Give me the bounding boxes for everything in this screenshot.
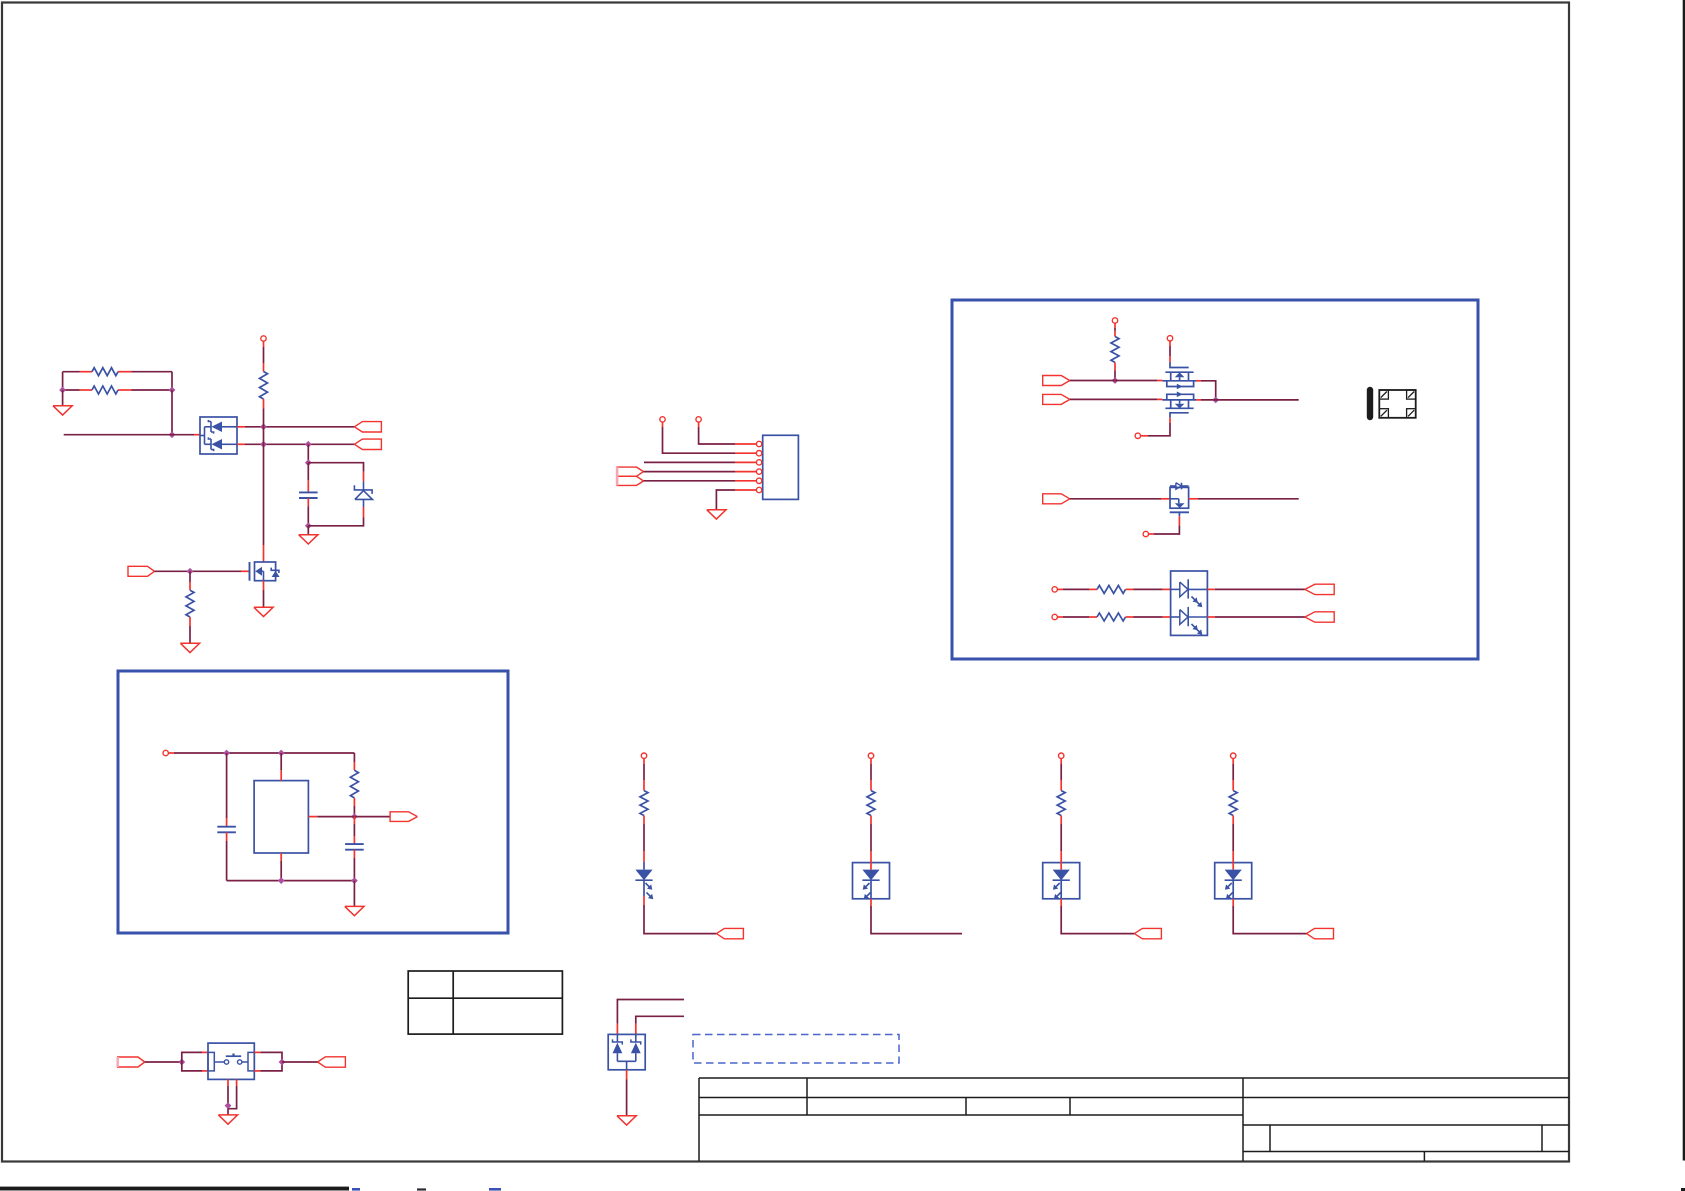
junction left R pair <box>59 387 66 394</box>
wire gate1 <box>155 570 242 572</box>
wire red stub into LED2 <box>870 862 872 870</box>
connector J1 body <box>763 435 799 499</box>
wire red stub Q3 gate <box>1178 516 1180 525</box>
bottom-right corner mark <box>1681 1188 1685 1191</box>
wire cap upper <box>307 463 309 481</box>
wire R8 to out <box>353 806 355 817</box>
wire LED4 bottom <box>1233 906 1306 934</box>
wire red stub into LED4 <box>1232 862 1234 870</box>
wire R5 to net1 <box>1114 370 1116 380</box>
wire red stub Q2 S2 <box>1157 398 1162 400</box>
wire pin P4 to R5 <box>1114 323 1116 330</box>
MOSFET Q1 <box>250 562 280 581</box>
wire LED4 mid <box>1232 824 1234 862</box>
wire right vertical R pair <box>171 372 173 390</box>
wire LED1 bottom <box>644 905 716 934</box>
wire LED4 upper stub <box>1232 758 1234 780</box>
net flag LED4 <box>1307 928 1334 938</box>
power pin LED4 <box>1231 753 1236 758</box>
wire red stub Q3 right <box>1189 498 1198 500</box>
wire SW left <box>145 1061 182 1063</box>
wire J1 pin6 <box>716 490 735 510</box>
power pin P4 <box>1112 318 1117 323</box>
power pin P9 <box>1052 614 1057 619</box>
connector J1 pin 6 circle <box>756 487 761 492</box>
wire red stub into D1 <box>194 434 200 436</box>
junction osc top mid <box>278 750 285 757</box>
wire pin to R3 <box>263 341 265 363</box>
resistor R12 <box>1229 780 1237 824</box>
junction osc out <box>351 813 358 820</box>
wire LED3 mid <box>1060 824 1062 862</box>
wire LED1 upper stub <box>643 758 645 780</box>
resistor R2 pin stubs <box>80 389 132 391</box>
wire red stub D2 top <box>363 472 365 482</box>
net flag VOUT2 <box>354 439 381 449</box>
wire red stub X1 bottom <box>280 853 282 861</box>
wire red stub Q3 left <box>1161 498 1170 500</box>
wire D1 top out <box>245 426 354 428</box>
wire red stubs SW right pins <box>254 1052 260 1071</box>
wire red stub C3 bottom <box>353 850 355 858</box>
ground GND4 <box>180 643 199 652</box>
wire J1 pin5 <box>644 480 736 482</box>
wire P8 stub <box>1057 588 1089 590</box>
wire net3 <box>1070 498 1161 500</box>
ground GND1 <box>53 406 72 415</box>
ground GND8 <box>617 1116 636 1125</box>
wire SW right <box>282 1061 318 1063</box>
net flag SW right <box>318 1057 346 1067</box>
adjacent sheet border (right edge partial) <box>1683 0 1685 1161</box>
resistor R7 <box>1089 613 1134 621</box>
wire Q2 output <box>1201 399 1299 401</box>
resistor R3 <box>260 363 268 409</box>
wire D1 bottom out <box>245 443 354 445</box>
wire red stub C2 bottom <box>226 832 228 841</box>
junction SW left <box>178 1059 185 1066</box>
wire red stub Q1 drain <box>263 545 265 562</box>
wire red stub pin2 circle <box>662 422 664 427</box>
wire red stub pin1 circle <box>698 422 700 427</box>
net flag LED3 <box>1134 928 1161 938</box>
LED D4 <box>635 870 653 905</box>
wire red stub C3 top2 <box>353 836 355 844</box>
wire R3 to node <box>263 409 265 427</box>
wire P5 to gate1 <box>1169 341 1171 362</box>
wire X1 top <box>280 753 282 770</box>
wire red stub Q2 S1 <box>1157 380 1162 382</box>
junction drain net bottom <box>260 441 267 448</box>
wire cap lower <box>307 507 309 526</box>
junction osc bottom right <box>351 877 358 884</box>
ground GND3 <box>254 607 273 616</box>
resistor R6 <box>1089 585 1134 593</box>
connector J1 pin 5 circle <box>756 478 761 483</box>
wire top rail corner <box>353 753 355 762</box>
wire left vertical R1-R2 <box>62 372 64 390</box>
pushbutton SW1 <box>208 1043 254 1079</box>
net flag GATE1 input <box>128 566 155 576</box>
wire red stub C1 bottom <box>307 498 309 507</box>
power pin P2 <box>696 417 701 422</box>
LED D5 <box>862 870 879 906</box>
group box (oscillator section) <box>118 671 508 933</box>
wire gate pulldown upper <box>189 571 191 582</box>
wire net2 <box>1070 398 1157 400</box>
double net flag (pins 4-5) <box>617 467 643 485</box>
wire red stub Q1 source <box>263 581 265 590</box>
resistor R11 <box>1057 780 1065 824</box>
net flag IN3 <box>1043 494 1070 504</box>
net flag SW left <box>118 1057 145 1067</box>
resistor R8 <box>350 770 358 806</box>
wire J1 pin4 <box>644 471 736 473</box>
dual zener pack D9 <box>608 1034 645 1069</box>
wire to ground2 <box>307 526 309 535</box>
wire osc bottom rail <box>227 880 355 882</box>
resistor R1 pin stubs <box>80 371 132 373</box>
wire red stub U2 in1 <box>1163 588 1171 590</box>
junction input net <box>169 431 176 438</box>
cropped text fragment 2 <box>417 1188 426 1190</box>
LED D7 <box>1225 870 1242 906</box>
wire U2 out1 <box>1215 588 1305 590</box>
cropped text fragment 1 <box>352 1188 360 1191</box>
wire red stub X1 out <box>308 816 317 818</box>
wire red stub into LED3 <box>1060 862 1062 870</box>
ground GND2 <box>299 535 318 544</box>
capacitor C1 <box>299 492 318 498</box>
power pin P3 <box>660 417 665 422</box>
junction SW ground <box>225 1102 232 1109</box>
net flag OUT1 <box>1305 584 1334 594</box>
wire LED2 bottom <box>871 906 962 934</box>
net flag VOUT1 <box>354 422 381 432</box>
wire Q3 output <box>1198 498 1299 500</box>
wire cap branch down <box>307 444 309 462</box>
resistor R2 <box>92 386 118 394</box>
dual MOSFET Q2 <box>1162 362 1196 418</box>
wire red stub C2 top <box>226 818 228 827</box>
wire R4 to ground <box>189 626 191 643</box>
wire P10 stub <box>168 752 174 754</box>
wire R2 right to node <box>132 389 173 391</box>
ground GND5 <box>707 510 726 519</box>
connector J1 pin 3 circle <box>756 460 761 465</box>
footprint symbol Y1 <box>1367 387 1416 420</box>
wire R2 left lead <box>63 389 80 391</box>
junction Q2 output <box>1212 397 1219 404</box>
MOSFET Q3 <box>1170 483 1189 517</box>
dashed annotation box <box>693 1035 899 1064</box>
junction cap tap <box>305 441 312 448</box>
power pin P5 <box>1167 336 1172 341</box>
wire LED3 upper stub <box>1060 758 1062 780</box>
wire red stub Q2 D1 right <box>1196 380 1201 382</box>
power pin P1 <box>261 336 266 341</box>
wire SW bottom left <box>227 1086 229 1115</box>
LED D6 box <box>1043 863 1080 899</box>
wire blue lead LED1 <box>643 862 645 870</box>
wire to ground left <box>62 390 64 406</box>
junction R5-net1 <box>1112 377 1119 384</box>
wire gate2 route <box>1148 423 1170 436</box>
bottom-left black bar (cropped text row) <box>0 1187 349 1191</box>
wire SW left loop <box>182 1052 202 1071</box>
wire input net horizontal <box>64 434 194 436</box>
resistor R4 <box>186 582 194 626</box>
wire U2 out2 <box>1215 616 1305 618</box>
LED D5 box <box>853 863 890 899</box>
wire red stub C1 top <box>307 480 309 492</box>
wire R1 left lead <box>63 371 80 373</box>
capacitor C2 <box>217 827 236 833</box>
wire SW bottom right <box>228 1086 237 1109</box>
junction cap-zener bottom <box>305 522 312 529</box>
power pin LED1 <box>641 753 646 758</box>
ground GND7 <box>218 1115 237 1124</box>
power pin P8 <box>1052 587 1057 592</box>
resistor R10 <box>867 780 875 824</box>
net flag IN1 <box>1043 376 1070 386</box>
junction SW right <box>279 1059 286 1066</box>
power pin LED2 <box>868 753 873 758</box>
wire LED2 mid <box>870 824 872 862</box>
zener diode D2 <box>354 481 372 507</box>
net flag LED1 <box>716 928 743 938</box>
wire J1 pin1 <box>699 427 735 444</box>
LED pack U2 <box>1171 571 1208 635</box>
junction drain net top <box>260 423 267 430</box>
wire P9 stub <box>1057 616 1089 618</box>
net flag IN2 <box>1043 394 1070 404</box>
connector J1 pin 4 circle <box>756 469 761 474</box>
power pin P10 <box>163 750 168 755</box>
junction osc top left <box>223 750 230 757</box>
revision table <box>408 971 562 1034</box>
wire osc top rail <box>174 752 354 754</box>
wire node down to input net <box>171 390 173 435</box>
wire red stub P7 <box>1149 533 1154 535</box>
junction osc bottom mid <box>278 877 285 884</box>
connector J1 pin stubs <box>735 444 756 490</box>
wire red stub pack in2 <box>635 1024 637 1035</box>
LED D7 box <box>1215 863 1252 899</box>
wire net1 <box>1070 380 1157 382</box>
power pin LED3 <box>1059 753 1064 758</box>
wire red stub R8 top <box>353 762 355 770</box>
net flag CLK out <box>390 812 417 822</box>
wire red stubs SW bottom pins <box>228 1079 237 1086</box>
junction gate-R4 <box>187 568 194 575</box>
wire J1 pin3 <box>644 461 735 463</box>
wire R7 to U2 <box>1134 616 1163 618</box>
wire osc out <box>317 816 390 818</box>
wire LED3 bottom <box>1061 906 1134 934</box>
wire C3 lower <box>353 858 355 881</box>
wire zener bottom link <box>308 518 363 526</box>
wire C2 lower <box>226 841 228 881</box>
connector J1 pin 1 circle <box>756 441 761 446</box>
wire gate3 route <box>1154 525 1179 534</box>
wire red stub Q2 gate2 <box>1169 418 1171 423</box>
wire red stubs SW left pins <box>202 1052 208 1071</box>
wire drain vertical <box>263 427 265 545</box>
wire diode pack net1 <box>617 1000 684 1024</box>
wire red stub C3 top <box>353 817 355 824</box>
wire red stub pack out <box>626 1070 628 1080</box>
wire J1 pin2 <box>663 427 736 453</box>
connector J1 pin 2 circle <box>756 451 761 456</box>
wire red stub D2 bottom <box>363 507 365 518</box>
wire red stub U2 out1 <box>1207 588 1214 590</box>
wire red stub pack in1 <box>616 1024 618 1035</box>
wire pack to ground <box>626 1080 628 1116</box>
wire Q1 source to ground <box>263 590 265 607</box>
wire red stub P6 <box>1141 435 1148 437</box>
wire red stub U2 out2 <box>1207 616 1214 618</box>
LED D6 <box>1053 870 1070 906</box>
dual TVS diode D1 <box>200 417 237 454</box>
wire LED2 upper stub <box>870 758 872 780</box>
junction right R pair <box>169 387 176 394</box>
crystal X1 body <box>254 781 308 853</box>
wire red stub Q2 D2 right <box>1196 399 1201 401</box>
wire C3 upper <box>353 824 355 836</box>
wire X1 bottom <box>280 861 282 881</box>
wire R1 right to node <box>132 371 173 373</box>
power pin P7 <box>1143 531 1148 536</box>
wire red stub U2 in2 <box>1163 616 1171 618</box>
net flag OUT2 <box>1305 612 1334 622</box>
resistor R1 <box>92 368 118 376</box>
wire red stub Q1 gate <box>241 570 250 572</box>
wire LED1 mid <box>643 824 645 862</box>
resistor R5 <box>1111 331 1119 371</box>
wire R6 to U2 <box>1134 588 1163 590</box>
wire C2 upper <box>226 753 228 818</box>
title block table <box>699 1078 1569 1161</box>
wire to GND6 <box>353 881 355 907</box>
wire red stub D1 out top <box>237 426 245 428</box>
group box (switch/opto section) <box>952 300 1478 659</box>
wire SW right loop <box>260 1052 282 1071</box>
power pin P6 <box>1135 433 1140 438</box>
cropped text fragment 3 <box>489 1188 501 1191</box>
wire diode pack net2 <box>636 1016 684 1023</box>
wire red stub D1 out bottom <box>237 443 245 445</box>
ground GND6 <box>345 906 364 915</box>
wire red stub X1 top <box>280 770 282 780</box>
junction cap-zener top <box>305 459 312 466</box>
wire to zener top <box>308 463 363 472</box>
wire Q2 drain link <box>1201 381 1216 400</box>
capacitor C3 <box>345 844 364 850</box>
resistor R9 <box>640 780 648 824</box>
